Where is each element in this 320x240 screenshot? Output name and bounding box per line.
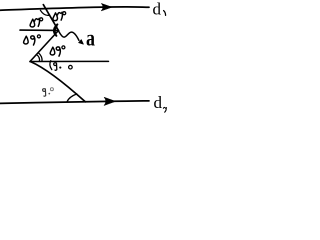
arrowhead of wavy arrow xyxy=(79,40,84,45)
arrowhead on d1 xyxy=(101,3,112,10)
label 52deg right at P1 xyxy=(53,12,66,21)
label 52deg left at vertex a xyxy=(30,18,43,27)
subscript Persian 2 of d2 xyxy=(163,107,166,112)
line d1 xyxy=(0,7,149,10)
line d2 xyxy=(0,101,149,104)
label 56deg right at V2 xyxy=(50,46,65,56)
label 40deg upper at V2 xyxy=(54,63,73,71)
svg-text:a: a xyxy=(86,26,95,51)
auxiliary line 2 through vertex V2 xyxy=(30,60,109,62)
angle arc at V2 between aux2 and seg4 xyxy=(50,61,52,70)
angle arc at P1 on d1 xyxy=(40,10,49,15)
angle arc at P4 on d2 xyxy=(67,94,77,102)
subscript Persian 1 of d1 xyxy=(164,11,166,16)
segment seg2 from vertex a to vertex V2 xyxy=(30,31,59,62)
svg-text:d: d xyxy=(154,93,163,112)
label 40deg lower at P4 xyxy=(43,88,54,96)
segment seg1 from d1 down to vertex a xyxy=(43,5,58,31)
angle arc pair at vertex a xyxy=(54,24,57,35)
wavy arrow pointing to vertex a xyxy=(59,32,79,41)
label 56deg left below aux line 1 xyxy=(24,35,41,45)
svg-text:d: d xyxy=(153,0,162,18)
arrowhead on d2 xyxy=(104,97,115,105)
segment seg4 from V2 down to d2 xyxy=(31,62,86,102)
auxiliary line 1 through vertex a xyxy=(20,29,59,31)
angle arc pair at V2 between seg2 and aux2 xyxy=(36,53,42,62)
